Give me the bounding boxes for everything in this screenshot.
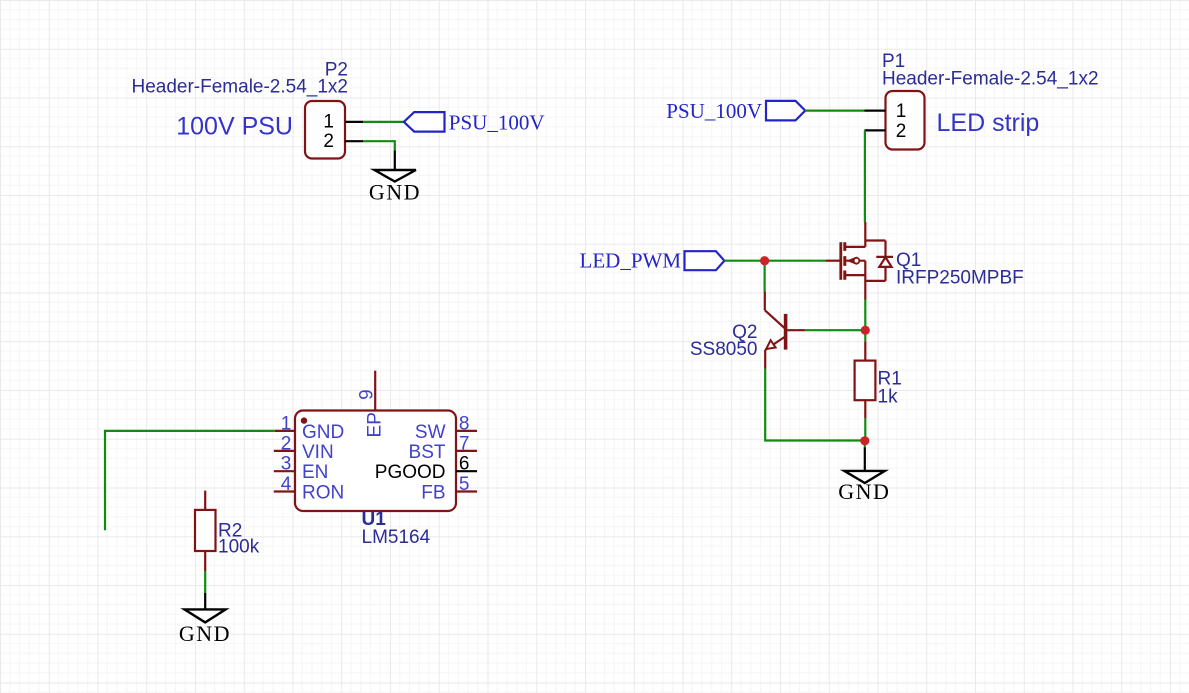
svg-text:FB: FB — [421, 482, 445, 503]
svg-text:7: 7 — [459, 433, 470, 454]
svg-text:Header-Female-2.54_1x2: Header-Female-2.54_1x2 — [131, 77, 348, 98]
svg-text:100k: 100k — [218, 537, 260, 558]
svg-text:6: 6 — [459, 454, 470, 475]
svg-text:IRFP250MPBF: IRFP250MPBF — [896, 268, 1024, 289]
svg-text:1: 1 — [323, 111, 334, 132]
svg-text:2: 2 — [896, 121, 907, 142]
svg-text:EN: EN — [302, 462, 328, 483]
svg-text:BST: BST — [409, 442, 446, 463]
svg-text:RON: RON — [302, 482, 344, 503]
svg-text:2: 2 — [281, 433, 292, 454]
svg-text:4: 4 — [281, 474, 292, 495]
svg-text:1k: 1k — [878, 387, 899, 408]
svg-text:VIN: VIN — [302, 442, 334, 463]
svg-text:9: 9 — [356, 389, 377, 400]
svg-text:2: 2 — [323, 131, 334, 152]
svg-text:EP: EP — [365, 412, 386, 437]
svg-text:PSU_100V: PSU_100V — [666, 99, 762, 123]
svg-text:LM5164: LM5164 — [362, 527, 431, 548]
svg-text:GND: GND — [369, 180, 421, 205]
svg-text:GND: GND — [179, 621, 231, 646]
svg-text:PGOOD: PGOOD — [375, 462, 446, 483]
svg-text:5: 5 — [459, 474, 470, 495]
svg-text:GND: GND — [302, 422, 344, 443]
svg-text:Header-Female-2.54_1x2: Header-Female-2.54_1x2 — [882, 69, 1099, 90]
svg-text:100V PSU: 100V PSU — [176, 113, 293, 141]
svg-text:LED_PWM: LED_PWM — [580, 249, 682, 273]
svg-text:3: 3 — [281, 454, 292, 475]
svg-text:GND: GND — [838, 479, 890, 504]
svg-text:8: 8 — [459, 413, 470, 434]
svg-text:PSU_100V: PSU_100V — [449, 111, 545, 135]
svg-text:1: 1 — [896, 101, 907, 122]
svg-text:SS8050: SS8050 — [690, 339, 758, 360]
svg-text:1: 1 — [281, 413, 292, 434]
svg-text:SW: SW — [415, 422, 446, 443]
svg-text:LED strip: LED strip — [937, 109, 1040, 137]
